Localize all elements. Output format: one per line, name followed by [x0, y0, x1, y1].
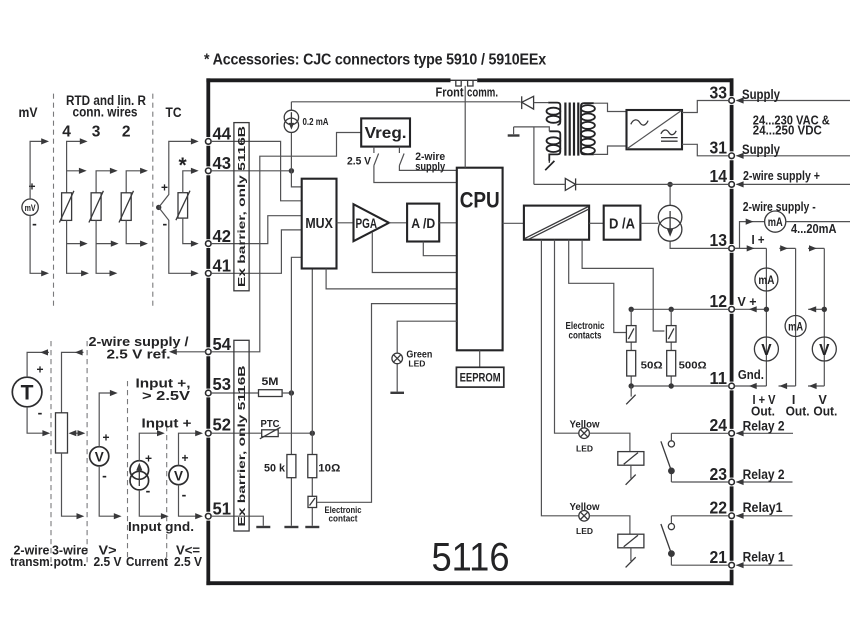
node V+ contact1 [629, 307, 634, 312]
ground below contact [305, 526, 319, 528]
coil K2 return blade [630, 465, 632, 478]
transformer T1 [545, 103, 595, 171]
svg-text:Front: Front [436, 86, 465, 100]
svg-text:2.5 V: 2.5 V [174, 555, 203, 569]
svg-text:53: 53 [213, 374, 232, 394]
relay2 contact [661, 433, 729, 482]
svg-text:LED: LED [576, 526, 593, 536]
relay1 contact [661, 516, 729, 565]
switch 2-wire supply from Vreg [399, 147, 456, 171]
terminal 43 [206, 168, 212, 174]
Ex barrier top box [234, 123, 249, 291]
svg-text:21: 21 [710, 547, 728, 567]
svg-text:2.5 V ref.: 2.5 V ref. [107, 347, 171, 362]
wire node through 50k to ground [290, 393, 292, 526]
svg-text:50 k: 50 k [264, 462, 286, 474]
dashed separator RTD/TC [152, 94, 154, 309]
svg-text:54: 54 [213, 334, 232, 354]
border bottom [206, 581, 733, 585]
svg-text:transm.: transm. [10, 555, 53, 569]
svg-text:contacts: contacts [569, 330, 602, 342]
3-wire potentiometer [56, 349, 86, 519]
ground at transformer [513, 127, 515, 134]
wire relay2 no [737, 432, 794, 434]
svg-text:LED: LED [576, 444, 593, 454]
RTD 3-wire branch [89, 168, 119, 277]
resistor 5M [259, 390, 283, 397]
wire 44 to MUX [211, 141, 302, 200]
wire potm bottom to 51 [62, 453, 82, 516]
resistor 50R [627, 351, 636, 377]
svg-text:Out.: Out. [751, 405, 775, 419]
wire I+ rail to col2 [779, 247, 795, 249]
AC/DC converter U2 [627, 101, 729, 156]
svg-text:EEPROM: EEPROM [460, 371, 501, 385]
RTD resistor col2 [121, 193, 131, 221]
ground below green LED [390, 392, 404, 394]
ground below 50k [284, 526, 298, 528]
primary winding lower [549, 131, 560, 160]
relay coil K1 [618, 534, 644, 548]
EEPROM block [456, 367, 503, 387]
wire I+ rail to col3 [808, 247, 824, 249]
svg-text:41: 41 [213, 256, 232, 276]
svg-text:MUX: MUX [305, 216, 333, 232]
wire V+ to col1 [734, 308, 766, 310]
border right segments [730, 78, 734, 585]
2-wire transmitter T [12, 363, 43, 421]
terminal 22 [729, 513, 735, 519]
svg-text:Relay 2: Relay 2 [743, 418, 785, 433]
svg-text:conn. wires: conn. wires [73, 104, 138, 119]
wire TC+ to 44 [159, 141, 196, 207]
terminal 21 [729, 562, 735, 568]
wire AD bottom to CPU [423, 242, 457, 256]
node 53 ref [289, 390, 294, 395]
wire column I+V out [765, 248, 767, 386]
voltage source V<=2.5V [169, 430, 203, 519]
terminal circles + numbers : left [206, 124, 232, 519]
wire V2- to 51 [179, 485, 201, 517]
MUX block [302, 179, 337, 269]
Ex barrier bottom box [234, 340, 249, 531]
wire gnd stub col2 [779, 385, 796, 387]
primary winding upper [548, 103, 560, 125]
svg-text:Relay 2: Relay 2 [743, 467, 785, 482]
chopper switch below primary [548, 161, 550, 163]
svg-text:31: 31 [710, 137, 728, 157]
svg-text:CPU: CPU [460, 188, 500, 213]
wire 13 to loop meter [734, 222, 764, 249]
isolation barrier block [524, 206, 589, 240]
wire converter to 31 [682, 144, 729, 156]
wire relay1 com [737, 564, 793, 566]
svg-text:Input +: Input + [142, 416, 192, 431]
contact switch 2 [670, 309, 672, 386]
wire 5M to node [282, 392, 291, 394]
svg-text:4: 4 [62, 123, 71, 140]
svg-text:Yellow: Yellow [570, 501, 601, 513]
terminal 13 [729, 246, 735, 252]
svg-text:contact: contact [329, 514, 359, 525]
RTD resistor col3 [91, 193, 101, 221]
svg-text:2.5 V: 2.5 V [347, 155, 372, 167]
wire contact to CPU [317, 304, 457, 503]
svg-text:V: V [95, 450, 104, 465]
dashed separator potm/V [86, 341, 88, 565]
current source 0.2mA [284, 102, 329, 171]
wire current+ to 52 [139, 433, 162, 461]
terminal 54 [206, 349, 212, 355]
wire mV- to 41 level [30, 216, 46, 274]
op-amp PGA [354, 204, 389, 241]
wire CJC bottom to 42 [183, 218, 196, 244]
wire CPU to isolation [503, 222, 524, 224]
svg-text:14: 14 [710, 166, 728, 186]
D/A block [604, 206, 641, 240]
svg-text:11: 11 [710, 368, 728, 388]
svg-text:-: - [102, 468, 107, 484]
svg-text:mA: mA [788, 321, 803, 333]
wire CPU to EEPROM [479, 350, 481, 367]
A/D block [407, 204, 439, 242]
svg-text:V +: V + [738, 295, 757, 309]
wire secondary bottom to converter [594, 146, 627, 154]
svg-text:T: T [21, 382, 34, 405]
svg-text:supply: supply [415, 161, 446, 173]
border top [206, 78, 733, 82]
resistor 50k [287, 455, 296, 478]
wire T- to 52 [27, 407, 47, 433]
CPU block [457, 168, 503, 351]
wire col4 top arrows [67, 141, 85, 192]
svg-text:24...250 VDC: 24...250 VDC [753, 123, 823, 138]
diode D1 [522, 96, 549, 109]
svg-text:5116: 5116 [432, 536, 510, 580]
svg-text:I +: I + [752, 233, 765, 247]
svg-text:+: + [161, 181, 168, 195]
svg-text:22: 22 [710, 498, 728, 518]
RTD 2-wire branch [119, 168, 148, 247]
wire 41 to MUX [211, 230, 302, 273]
svg-text:12: 12 [710, 291, 728, 311]
wire 42 to MUX [211, 216, 302, 244]
meter V col3 [812, 337, 836, 361]
dashed separator transm/potm [50, 341, 52, 565]
coil K1 return blade [630, 548, 632, 561]
wire column I out [795, 248, 797, 386]
wire LED2 to coil [589, 433, 630, 451]
iso pin to contact 2 [582, 240, 664, 331]
yellow LED relay2 [570, 418, 601, 453]
svg-text:A /D: A /D [411, 216, 435, 231]
svg-text:+: + [145, 452, 152, 466]
node TC junction [156, 205, 161, 210]
wire 53 to 5M [211, 392, 258, 394]
svg-text:Supply: Supply [742, 142, 780, 157]
svg-text:4...20mA: 4...20mA [791, 221, 837, 236]
wire front comm to CPU [464, 86, 466, 168]
wire 2-wire supply + [737, 183, 850, 185]
svg-text:Vreg.: Vreg. [365, 125, 407, 142]
svg-text:+: + [36, 363, 43, 377]
svg-text:Ex barrier, only 5116B: Ex barrier, only 5116B [236, 365, 248, 527]
wire isolation to DA [589, 222, 604, 224]
svg-text:Ex barrier, only 5116B: Ex barrier, only 5116B [236, 125, 248, 287]
svg-text:50Ω: 50Ω [641, 359, 663, 371]
svg-text:3: 3 [92, 123, 101, 140]
wire column V out [823, 248, 825, 386]
terminal 14 [729, 182, 735, 188]
svg-text:+: + [102, 431, 109, 445]
svg-text:* Accessories: CJC connectors: * Accessories: CJC connectors type 5910 … [204, 52, 547, 69]
svg-text:0.2 mA: 0.2 mA [303, 116, 329, 128]
svg-text:V: V [819, 342, 830, 359]
wire PTC to node [278, 432, 312, 434]
terminal 23 [729, 479, 735, 485]
meter V col1 [754, 337, 778, 361]
terminal 24 [729, 431, 735, 437]
svg-text:V: V [761, 342, 772, 359]
meter mA loop [765, 211, 786, 232]
contact switch 1 [630, 309, 632, 386]
dashed separator V/current [127, 381, 129, 565]
svg-text:42: 42 [213, 226, 232, 246]
diode D2 [534, 178, 576, 190]
wire V2+ to 52 [179, 433, 201, 465]
terminal 33 [729, 98, 735, 104]
wire V+ rail [631, 308, 729, 310]
svg-text:Relay 1: Relay 1 [743, 549, 785, 564]
svg-text:5M: 5M [262, 376, 279, 388]
svg-text:-: - [32, 216, 37, 232]
svg-text:-: - [38, 405, 43, 421]
wire V- to 51 [99, 466, 118, 516]
wire 2-wire supply rail to 14 [576, 183, 729, 185]
svg-text:PTC: PTC [261, 418, 280, 430]
wire potm top from 54 [62, 352, 84, 412]
wire TC- to 41 [159, 207, 196, 273]
output current source [658, 184, 729, 248]
terminal 12 [729, 307, 735, 313]
wire PGA ctrl to CPU [372, 232, 457, 273]
TC thermocouple branch [156, 138, 199, 276]
front comm connector on top border [436, 80, 499, 99]
wire DA to output current source [640, 222, 658, 224]
svg-text:44: 44 [213, 124, 232, 144]
RTD resistor col4 [62, 193, 72, 221]
resistor PTC [262, 430, 279, 437]
switch 2.5V from Vreg [374, 147, 457, 183]
svg-text:51: 51 [213, 498, 232, 518]
secondary winding [581, 103, 594, 154]
svg-text:D /A: D /A [609, 216, 635, 232]
potentiometer body [56, 413, 68, 453]
svg-text:V: V [174, 468, 183, 483]
earth blade below gnd rail [630, 386, 632, 397]
svg-text:Current: Current [126, 555, 169, 569]
wire supply 31 [737, 155, 850, 157]
terminal 44 [206, 139, 212, 145]
svg-text:Supply: Supply [742, 87, 780, 102]
wire 54 to Vreg [211, 133, 361, 352]
svg-text:Gnd.: Gnd. [738, 367, 764, 382]
wire T+ from 54 [27, 352, 49, 377]
svg-text:TC: TC [166, 104, 182, 120]
node gnd contact2 [669, 383, 674, 388]
wire node through 10R [311, 433, 313, 526]
wire AD to CPU [439, 222, 457, 224]
svg-text:comm.: comm. [467, 86, 498, 100]
wire secondary top to converter [594, 103, 627, 111]
svg-text:mV: mV [19, 104, 39, 120]
wire PGA to AD [389, 222, 407, 224]
Vreg block [361, 118, 410, 146]
wire node to MUX ref input [291, 257, 301, 393]
svg-text:LED: LED [408, 359, 425, 369]
current source input branch [130, 430, 169, 519]
meter mA col1 [755, 268, 778, 291]
node 52 sense [310, 431, 315, 436]
wire mV+ to 44 level [30, 141, 46, 199]
svg-text:52: 52 [213, 414, 232, 434]
dashed separator current/V2 [166, 426, 168, 565]
svg-text:> 2.5V: > 2.5V [142, 388, 190, 403]
svg-text:2-wire supply +: 2-wire supply + [743, 169, 820, 183]
svg-text:Out.: Out. [813, 405, 837, 419]
wire node up to MUX bottom [311, 269, 313, 434]
svg-text:2: 2 [122, 123, 131, 140]
terminal 52 [206, 430, 212, 436]
svg-text:mA: mA [758, 273, 774, 287]
svg-text:Yellow: Yellow [570, 418, 601, 430]
terminal circles + numbers : right [710, 82, 735, 568]
svg-text:43: 43 [213, 153, 232, 173]
svg-text:13: 13 [710, 230, 728, 250]
wire flyback from transformer [514, 127, 550, 184]
resistor 10R [308, 455, 317, 478]
relay coil K2 [618, 452, 644, 466]
svg-text:33: 33 [710, 82, 728, 102]
voltage source V>2.5V [90, 390, 122, 519]
resistor 500R [667, 351, 676, 377]
terminal 53 [206, 390, 212, 396]
mV source V1 [22, 180, 38, 232]
iso pin to relay1 LED [541, 240, 578, 516]
wire 0.2mA rail to diode [291, 101, 520, 103]
wire 51 to ground [211, 516, 263, 526]
potm wiper double arrow [71, 432, 83, 434]
node gnd contact1 [629, 383, 634, 388]
green LED [390, 321, 456, 393]
wire MUX bottom to CPU [326, 269, 457, 289]
svg-text:Input gnd.: Input gnd. [128, 519, 194, 534]
wire relay2 com [737, 481, 793, 483]
wire col4 bottom arrows [67, 220, 86, 273]
terminal 42 [206, 241, 212, 247]
svg-text:2.5 V: 2.5 V [94, 555, 123, 569]
svg-text:mA: mA [768, 217, 783, 229]
wire 52 to PTC [211, 432, 262, 434]
svg-text:10Ω: 10Ω [318, 462, 340, 474]
svg-text:potm.: potm. [54, 555, 87, 569]
svg-text:PGA: PGA [356, 216, 378, 231]
svg-text:+: + [181, 451, 188, 465]
svg-text:mV: mV [25, 203, 36, 213]
svg-text:23: 23 [710, 464, 728, 484]
yellow LED relay1 [570, 501, 601, 536]
wire V+ stub col3 [808, 308, 824, 310]
wire V+ to 53 [99, 393, 115, 447]
terminal 31 [729, 153, 735, 159]
svg-text:-: - [182, 487, 187, 503]
node V+ contact2 [669, 307, 674, 312]
iso pin to relay2 LED [555, 240, 579, 434]
meter mA col2 [785, 316, 806, 337]
wire LED1 to coil [589, 516, 630, 534]
wire MUX to PGA [337, 222, 354, 224]
RTD 4-wire branch [59, 138, 89, 276]
wire 43 junction to MUX [291, 171, 301, 187]
node 14 rail junction [667, 182, 672, 187]
CJC connector resistor [178, 193, 188, 218]
border left segments [206, 78, 210, 585]
iso pin to contact 1 [569, 240, 627, 333]
wire Gnd rail [631, 385, 729, 387]
svg-text:500Ω: 500Ω [679, 359, 707, 371]
wire relay1 no [737, 515, 793, 517]
core laminations [565, 103, 578, 156]
wire 43 to junction [211, 170, 291, 172]
node 43 junction [289, 168, 294, 173]
wire CJC top to 43 [183, 171, 196, 193]
wire 54 supply out arrow [172, 351, 206, 353]
svg-text:24: 24 [710, 415, 728, 435]
terminal 51 [206, 513, 212, 519]
wire I+ rail to col1 [734, 247, 766, 249]
svg-text:-: - [146, 483, 151, 499]
electronic contact switch box [308, 496, 317, 507]
terminal 41 [206, 271, 212, 277]
dashed separator mV/RTD [53, 94, 55, 309]
svg-text:Relay1: Relay1 [743, 500, 783, 515]
wire current- to 51 [139, 490, 165, 516]
wire converter to 33 [682, 101, 729, 113]
terminal 11 [729, 383, 735, 389]
svg-text:Out.: Out. [786, 405, 810, 419]
wire supply 33 [737, 100, 850, 102]
wire gnd stub col3 [808, 385, 824, 387]
